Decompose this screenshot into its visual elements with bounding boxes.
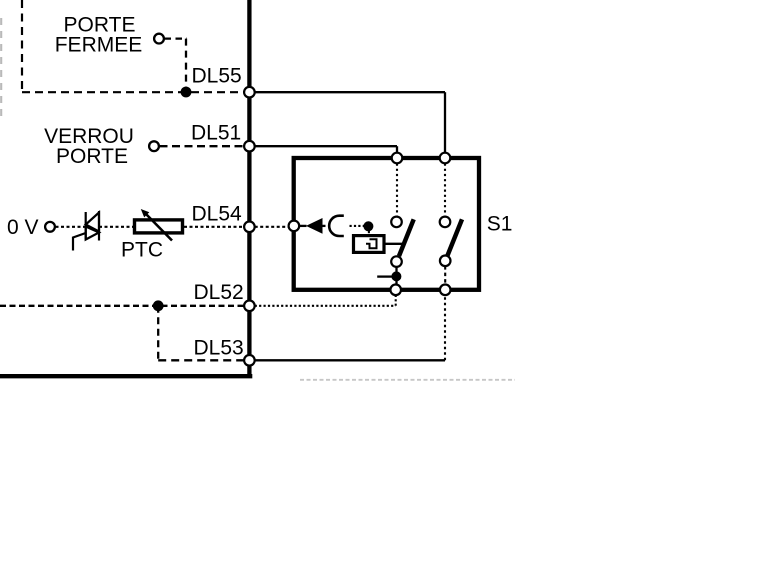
pin: open circle on S1 top edge (left, DL51)	[392, 153, 403, 164]
triac (crowbar) symbol	[73, 211, 99, 251]
wire DL54: dotted PTC to bus	[184, 226, 247, 228]
node DL53: open circle on bus	[244, 355, 255, 366]
wire: dashed vertical down to DL55	[185, 39, 187, 87]
wire DL53: dashed segment to bus	[158, 359, 247, 361]
actuator arrow (door) pointing left	[300, 225, 307, 227]
svg-text:S1: S1	[487, 213, 513, 236]
mechanical link from thermal element to switch blade	[386, 243, 404, 245]
wire: vertical dotted up to S1 bottom	[395, 294, 397, 306]
terminal: 0V open circle	[45, 222, 55, 232]
junction dot (mechanical link)	[363, 221, 373, 231]
thermal element box	[354, 236, 385, 253]
wire: vertical from DL51 down to S1 box top	[396, 146, 398, 153]
wire: vertical from DL55 down to S1 box top	[444, 92, 446, 153]
terminal: verrou porte open circle	[149, 141, 159, 151]
node DL52: open circle on bus	[244, 301, 255, 312]
wire DL51: dashed segment	[160, 145, 248, 147]
switch 1: stub wire left from junction dot	[377, 275, 392, 277]
switch 1: solid wire to bottom pin	[395, 267, 397, 285]
switch 2: dashed wire to bottom pin	[444, 266, 446, 284]
svg-text:DL54: DL54	[192, 203, 243, 226]
junction dot on DL55	[181, 87, 192, 98]
switch 1: blade	[399, 219, 414, 256]
wire: dashed vertical from DL52 junction down to DL53	[157, 306, 159, 361]
wire: dotted vertical from DL53 up to S1 bottom	[444, 294, 446, 360]
terminal: door-switch open circle	[154, 34, 164, 44]
svg-text:PTC: PTC	[121, 239, 163, 262]
junction dot on DL52	[153, 300, 164, 311]
svg-text:FERMEE: FERMEE	[55, 34, 143, 57]
thermal element inner detail	[366, 239, 377, 248]
switch 1: dotted wire from top pin	[396, 164, 398, 217]
switch box S1 (thick border)	[294, 158, 479, 290]
node DL55: open circle on bus	[244, 87, 255, 98]
PTC variable arrow (diagonal with arrowhead)	[145, 213, 173, 241]
switch 1: bottom contact circle	[391, 256, 402, 267]
svg-text:DL51: DL51	[191, 121, 241, 144]
svg-text:DL53: DL53	[194, 336, 244, 359]
wire DL51: solid right segment	[255, 145, 397, 147]
wire DL54: dotted from 0V to triac	[56, 226, 86, 228]
resistor PTC (rectangle)	[135, 220, 183, 233]
wire DL53: solid right segment	[255, 359, 445, 361]
wire DL54: dotted bus to S1 box	[255, 226, 290, 228]
pin: open circle on S1 bottom edge (left, DL52)	[390, 285, 401, 296]
svg-text:DL52: DL52	[194, 281, 244, 304]
wire: dashed box left side (porte fermee)	[21, 0, 23, 92]
pin: open circle on S1 top edge (right, DL55)	[440, 153, 451, 164]
wire: dashed from door-switch circle to corner	[165, 37, 188, 39]
dashed link from dot to thermal element	[368, 231, 370, 234]
pin: open circle on S1 bottom edge (right, DL53)	[440, 285, 451, 296]
wire DL52: dashed from left edge to bus	[0, 305, 247, 307]
switch 2: top contact circle	[440, 217, 451, 228]
svg-text:0 V: 0 V	[7, 216, 39, 239]
wire DL55: dashed left segment	[22, 91, 247, 93]
wire: bottom thick horizontal line	[0, 374, 252, 378]
switch 1: junction dot	[391, 271, 401, 281]
mechanical link dashed to junction dot	[350, 225, 365, 227]
switch 2: blade	[447, 219, 462, 256]
svg-text:PORTE: PORTE	[56, 145, 128, 168]
switch 1: top contact circle	[391, 217, 402, 228]
wire DL54: dotted triac to PTC	[99, 226, 133, 228]
artifact: faint dotted gray line below bottom right	[300, 379, 515, 381]
pin: open circle on S1 left edge (DL54)	[289, 221, 300, 232]
wire DL52: dotted bus to switch S1	[255, 305, 396, 307]
node DL51: open circle on bus	[244, 141, 255, 152]
switch 2: bottom contact circle	[440, 255, 451, 266]
wire DL55: solid right segment to S1	[255, 91, 445, 93]
node DL54: open circle on bus	[244, 222, 255, 233]
svg-text:DL55: DL55	[192, 64, 242, 87]
actuator arc (roller)	[329, 216, 344, 236]
wire: faint cropped dashed line at left image edge	[0, 18, 2, 118]
wire: main vertical bus (thick)	[247, 0, 251, 378]
switch 2: dotted wire from top pin	[444, 164, 446, 217]
